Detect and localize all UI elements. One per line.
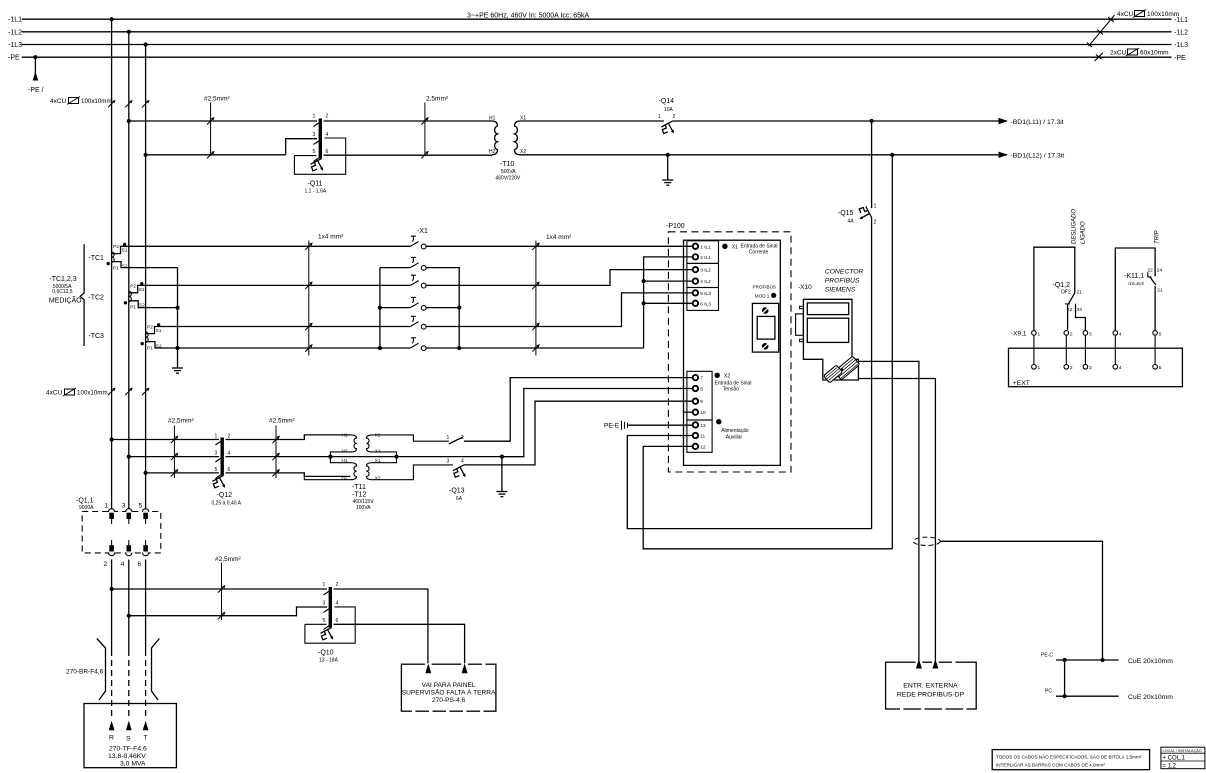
screen drain wire bbox=[940, 541, 1102, 660]
wire to ground bbox=[667, 155, 669, 180]
svg-text:-Q1,2: -Q1,2 bbox=[1053, 282, 1071, 289]
cable ticks middle bbox=[108, 388, 115, 395]
svg-text:3~+PE 60Hz, 460V In: 5000A Ic: 3~+PE 60Hz, 460V In: 5000A Icc: 65kA bbox=[467, 13, 590, 20]
breaker Q11 bbox=[294, 114, 345, 195]
measure line W2 2,5mm2 bbox=[424, 103, 426, 157]
connector X10 plug hatched bbox=[834, 356, 859, 380]
breaker Q1,1 dashed box bbox=[82, 512, 161, 553]
svg-text:-P100: -P100 bbox=[666, 223, 685, 230]
svg-text:P1: P1 bbox=[113, 265, 119, 271]
svg-text:4: 4 bbox=[121, 561, 125, 568]
box VAI PARA PAINEL bbox=[401, 664, 496, 711]
svg-text:100x10mm: 100x10mm bbox=[1147, 11, 1179, 18]
svg-text:3: 3 bbox=[323, 600, 326, 606]
svg-text:S2: S2 bbox=[122, 264, 128, 270]
measure line W #2,5mm2 bbox=[210, 103, 212, 157]
vertical bus drop A bbox=[111, 19, 113, 510]
svg-text:P1: P1 bbox=[147, 345, 153, 351]
svg-text:11: 11 bbox=[700, 434, 705, 440]
svg-text:2xCU: 2xCU bbox=[1110, 50, 1127, 57]
junction W2 on C bbox=[144, 153, 148, 157]
svg-text:22: 22 bbox=[1148, 268, 1154, 274]
svg-text:X2: X2 bbox=[375, 476, 381, 481]
terminal 10 stub bbox=[684, 411, 693, 413]
svg-text:-1L2: -1L2 bbox=[8, 29, 22, 36]
svg-text:13 - 18A: 13 - 18A bbox=[319, 658, 339, 664]
svg-text:12: 12 bbox=[700, 444, 706, 450]
svg-text:1: 1 bbox=[105, 503, 109, 510]
svg-text:4: 4 bbox=[461, 458, 464, 464]
svg-text:-X1: -X1 bbox=[417, 228, 428, 235]
svg-text:0,6C12,5: 0,6C12,5 bbox=[52, 289, 73, 295]
svg-text:460V/220V: 460V/220V bbox=[496, 176, 521, 182]
wire W1 segments bbox=[129, 121, 1007, 155]
svg-text:7: 7 bbox=[700, 376, 703, 382]
terminals 1-6 bbox=[693, 244, 698, 306]
voltage row V3 bbox=[146, 473, 351, 477]
secondary rows bbox=[128, 246, 693, 367]
svg-text:5: 5 bbox=[139, 503, 143, 510]
svg-text:13: 13 bbox=[700, 423, 706, 429]
svg-text:X1: X1 bbox=[732, 245, 738, 251]
svg-text:Corrente: Corrente bbox=[749, 250, 769, 256]
svg-text:S1: S1 bbox=[122, 248, 128, 254]
svg-text:10: 10 bbox=[700, 410, 706, 416]
breaker Q13 bbox=[453, 465, 466, 477]
svg-text:SUPERVISÃO FALTA À TERRA: SUPERVISÃO FALTA À TERRA bbox=[402, 687, 496, 696]
measure line M2 bbox=[535, 241, 537, 356]
voltage row V2 bbox=[129, 456, 331, 458]
junction Q10 feed B bbox=[127, 614, 131, 618]
svg-text:-1L1: -1L1 bbox=[8, 17, 22, 24]
svg-text:PROFIBUS: PROFIBUS bbox=[825, 278, 860, 285]
svg-text:ENTR. EXTERNA: ENTR. EXTERNA bbox=[903, 683, 958, 690]
svg-text:100VA: 100VA bbox=[356, 505, 371, 511]
svg-text:3: 3 bbox=[1089, 331, 1092, 337]
breaker Q12 bbox=[220, 438, 223, 476]
row R5 bbox=[162, 326, 410, 328]
svg-text:6 IL3: 6 IL3 bbox=[700, 301, 711, 307]
transformer T11 bbox=[304, 435, 453, 480]
svg-text:-TC1,2,3: -TC1,2,3 bbox=[49, 276, 76, 283]
row R3 bbox=[145, 284, 410, 286]
vertical bus drop B bbox=[128, 32, 130, 510]
Q1,1 pole A bbox=[108, 509, 114, 556]
terminal 12 wire bbox=[643, 446, 892, 548]
svg-text:1: 1 bbox=[447, 435, 450, 441]
phase arrows R S T bbox=[109, 721, 115, 731]
svg-text:PE-C: PE-C bbox=[1041, 653, 1053, 659]
svg-text:CuE 20x10mm: CuE 20x10mm bbox=[1128, 694, 1173, 701]
wire W2 segments bbox=[146, 154, 286, 156]
terminal 9 wire bbox=[464, 401, 693, 465]
junction W1 on B bbox=[127, 119, 131, 123]
svg-text:/16,4c5: /16,4c5 bbox=[1127, 281, 1144, 287]
CT TC2 bbox=[129, 285, 147, 307]
svg-text:-BD1(L12) / 17.3it: -BD1(L12) / 17.3it bbox=[1011, 153, 1065, 160]
Q1,1 pole C bbox=[142, 509, 148, 556]
svg-text:2: 2 bbox=[1070, 331, 1073, 337]
svg-text:#2,5mm²: #2,5mm² bbox=[168, 418, 194, 425]
svg-text:H2: H2 bbox=[489, 149, 496, 155]
short vertical right bbox=[426, 268, 459, 348]
svg-text:10A: 10A bbox=[664, 107, 674, 113]
transformer T10 bbox=[492, 121, 520, 155]
wire Q10 row1 bbox=[112, 589, 428, 664]
svg-text:-T11: -T11 bbox=[352, 484, 366, 491]
junction Q10 feed A bbox=[110, 587, 114, 591]
svg-text:PE-E: PE-E bbox=[604, 423, 620, 430]
svg-text:2 IL1: 2 IL1 bbox=[700, 255, 711, 261]
svg-text:3 IL2: 3 IL2 bbox=[700, 268, 711, 274]
svg-text:T: T bbox=[144, 735, 148, 742]
bus 1L1 bbox=[22, 18, 1172, 20]
CT TC1 bbox=[112, 246, 130, 267]
aux ref dot bbox=[716, 419, 721, 424]
svg-text:4xCU: 4xCU bbox=[50, 98, 67, 105]
svg-text:-Q14: -Q14 bbox=[659, 98, 675, 105]
svg-text:1: 1 bbox=[658, 114, 661, 120]
svg-text:INTERLIGAR AS BARRAS COM CABOS: INTERLIGAR AS BARRAS COM CABOS DE 4,0mm² bbox=[996, 762, 1105, 767]
svg-text:VAI PARA PAINEL: VAI PARA PAINEL bbox=[422, 682, 476, 689]
svg-text:2: 2 bbox=[673, 114, 676, 120]
svg-text:3: 3 bbox=[447, 458, 450, 464]
svg-text:1: 1 bbox=[874, 204, 877, 210]
connector X10 body bbox=[803, 299, 858, 380]
svg-text:21: 21 bbox=[1077, 290, 1083, 296]
terminal X1-6 bbox=[410, 338, 426, 351]
svg-text:-BD1(L11) / 17.3it: -BD1(L11) / 17.3it bbox=[1011, 119, 1064, 126]
svg-text:6: 6 bbox=[336, 618, 339, 624]
svg-text:CONECTOR: CONECTOR bbox=[825, 269, 864, 276]
svg-text:P1: P1 bbox=[130, 305, 136, 311]
PE tap wire bbox=[34, 57, 36, 80]
row R3 after switch bbox=[426, 270, 692, 286]
svg-text:4: 4 bbox=[228, 451, 231, 457]
svg-text:Auxiliar: Auxiliar bbox=[726, 435, 743, 441]
svg-text:X2: X2 bbox=[375, 449, 381, 454]
terminal X1-4 bbox=[410, 297, 426, 310]
svg-text:5: 5 bbox=[323, 618, 326, 624]
PE feeder slash bbox=[1095, 53, 1103, 61]
svg-text:X2: X2 bbox=[520, 149, 526, 155]
svg-text:-PE: -PE bbox=[8, 55, 20, 62]
svg-text:6: 6 bbox=[138, 561, 142, 568]
wire Q10 row3 out bbox=[334, 624, 465, 663]
svg-text:Alimentação: Alimentação bbox=[721, 428, 749, 434]
aux wire 2 vertical bbox=[891, 155, 893, 549]
svg-text:3: 3 bbox=[1089, 365, 1092, 371]
svg-text:TODOS OS CABOS NÃO ESPECIFICAD: TODOS OS CABOS NÃO ESPECIFICADOS, SÃO DE… bbox=[996, 753, 1142, 759]
svg-text:CuE 20x10mm: CuE 20x10mm bbox=[1128, 658, 1173, 665]
terminal X1-2 bbox=[410, 257, 426, 270]
svg-text:S1: S1 bbox=[139, 287, 145, 293]
svg-text:5 IL3: 5 IL3 bbox=[700, 291, 711, 297]
T11 junctions bbox=[328, 455, 332, 459]
svg-text:Entrada de Sinal: Entrada de Sinal bbox=[715, 380, 752, 386]
svg-text:-K11,1: -K11,1 bbox=[1124, 273, 1144, 280]
svg-text:P2: P2 bbox=[147, 324, 153, 330]
vertical bus drop C bbox=[145, 45, 147, 510]
svg-text:4xCU: 4xCU bbox=[46, 390, 63, 397]
svg-text:+ COL,1: + COL,1 bbox=[1163, 756, 1186, 762]
svg-text:9000A: 9000A bbox=[79, 505, 94, 511]
svg-text:-T10: -T10 bbox=[500, 161, 515, 168]
terminals 7-12 bbox=[693, 375, 698, 449]
svg-text:H2: H2 bbox=[342, 476, 348, 481]
svg-text:LIGADO: LIGADO bbox=[1081, 221, 1087, 244]
terminal X1-5 bbox=[410, 316, 426, 329]
breaker Q15 bbox=[871, 121, 873, 208]
ground vertical bbox=[177, 268, 179, 368]
svg-text:5: 5 bbox=[313, 149, 316, 155]
svg-text:4: 4 bbox=[1119, 365, 1122, 371]
svg-text:2: 2 bbox=[874, 220, 877, 226]
measure M5 bbox=[221, 563, 223, 621]
svg-text:270-BR-F4,6: 270-BR-F4,6 bbox=[66, 669, 104, 676]
svg-text:REDE PROFIBUS-DP: REDE PROFIBUS-DP bbox=[897, 692, 965, 699]
svg-text:1 IL1: 1 IL1 bbox=[700, 244, 711, 250]
svg-text:-X10: -X10 bbox=[798, 284, 812, 291]
svg-text:DESLIGADO: DESLIGADO bbox=[1072, 209, 1078, 244]
svg-text:2: 2 bbox=[461, 435, 464, 441]
wire U2 bbox=[1115, 248, 1155, 330]
svg-text:13,8-0,46KV: 13,8-0,46KV bbox=[108, 753, 146, 760]
svg-text:MOD 1: MOD 1 bbox=[755, 294, 770, 299]
svg-text:S: S bbox=[126, 736, 131, 743]
lower bus A bbox=[111, 560, 113, 651]
svg-text:#2,5mm²: #2,5mm² bbox=[204, 96, 230, 103]
svg-text:3: 3 bbox=[215, 451, 218, 457]
svg-text:21: 21 bbox=[1157, 288, 1163, 294]
svg-text:2: 2 bbox=[336, 582, 339, 588]
svg-text:2: 2 bbox=[326, 114, 329, 120]
svg-text:1x4 mm²: 1x4 mm² bbox=[318, 234, 344, 241]
svg-text:P2: P2 bbox=[130, 283, 136, 289]
measure M3 bbox=[173, 426, 175, 479]
row R2 left bbox=[130, 267, 178, 269]
svg-text:2,5mm²: 2,5mm² bbox=[426, 96, 449, 103]
svg-text:8: 8 bbox=[700, 387, 703, 393]
measure line M1 bbox=[308, 241, 310, 356]
svg-text:Tensão: Tensão bbox=[723, 387, 739, 393]
profibus wire A bbox=[858, 361, 919, 662]
svg-text:3: 3 bbox=[122, 503, 126, 510]
svg-text:-1L2: -1L2 bbox=[1174, 30, 1188, 37]
svg-text:5: 5 bbox=[215, 467, 218, 473]
svg-text:9: 9 bbox=[700, 399, 703, 405]
svg-text:PROFIBUS: PROFIBUS bbox=[753, 285, 776, 290]
junction Q15 tap bbox=[870, 119, 874, 123]
svg-text:+EXT: +EXT bbox=[1013, 380, 1030, 387]
svg-text:-1L3: -1L3 bbox=[8, 42, 22, 49]
box EXT bbox=[1009, 348, 1183, 387]
svg-text:S2: S2 bbox=[139, 303, 145, 309]
svg-text:-Q10: -Q10 bbox=[318, 650, 334, 657]
svg-text:LOCAL / INSTALAÇÃO: LOCAL / INSTALAÇÃO bbox=[1163, 748, 1202, 753]
svg-text:-TC1: -TC1 bbox=[88, 255, 104, 262]
P100 inner box bbox=[684, 240, 781, 465]
X1 ref dot bbox=[722, 244, 727, 249]
svg-text:-PE /: -PE / bbox=[28, 87, 44, 94]
breaker Q14 bbox=[658, 98, 676, 134]
junction A bbox=[110, 17, 114, 21]
junctions V rows bbox=[110, 437, 114, 441]
terminal X1-3 bbox=[410, 275, 426, 288]
svg-text:S2: S2 bbox=[156, 344, 162, 350]
svg-text:270-PS-4,6: 270-PS-4,6 bbox=[432, 697, 466, 704]
lower bus B bbox=[128, 560, 130, 651]
svg-text:-PE: -PE bbox=[1174, 55, 1186, 62]
svg-text:-Q12: -Q12 bbox=[217, 492, 233, 499]
svg-text:6A: 6A bbox=[456, 496, 463, 502]
cable screen bbox=[913, 537, 940, 545]
junction ground tap bbox=[666, 153, 670, 157]
junction dots secondary bbox=[175, 306, 179, 310]
svg-text:OF2: OF2 bbox=[1061, 289, 1071, 295]
voltage row V1 bbox=[112, 435, 351, 440]
profibus wire B bbox=[858, 379, 935, 663]
svg-text:X1: X1 bbox=[375, 433, 381, 438]
svg-text:5: 5 bbox=[1159, 365, 1162, 371]
svg-text:-Q13: -Q13 bbox=[449, 488, 465, 495]
terminal 8 wire bbox=[502, 389, 693, 457]
top-right feeder slash bbox=[1087, 15, 1115, 61]
svg-text:6: 6 bbox=[228, 467, 231, 473]
svg-text:-Q15: -Q15 bbox=[838, 210, 854, 217]
cable ticks top bbox=[108, 100, 115, 107]
svg-text:1: 1 bbox=[1038, 365, 1041, 371]
svg-text:= 1,2: = 1,2 bbox=[1163, 764, 1177, 770]
row R5 after switch bbox=[426, 293, 692, 327]
svg-text:R: R bbox=[109, 735, 114, 742]
svg-text:H2: H2 bbox=[342, 449, 348, 454]
svg-text:-X9,1: -X9,1 bbox=[1011, 331, 1027, 338]
svg-text:#2,5mm²: #2,5mm² bbox=[269, 418, 295, 425]
lower bus C bbox=[145, 560, 147, 651]
svg-text:PC: PC bbox=[1045, 689, 1052, 695]
svg-text:H1: H1 bbox=[489, 116, 496, 122]
wire t13 t11 t12 left stubs handled; terminal 11 wire bbox=[627, 436, 871, 529]
notes box bbox=[992, 750, 1149, 770]
bus PE bbox=[22, 56, 1172, 58]
svg-text:2: 2 bbox=[104, 561, 108, 568]
svg-text:34: 34 bbox=[1077, 307, 1083, 313]
svg-text:1: 1 bbox=[1038, 331, 1041, 337]
svg-text:24: 24 bbox=[1157, 268, 1163, 274]
terminal 7 wire bbox=[464, 378, 693, 442]
svg-text:X1: X1 bbox=[520, 116, 526, 122]
row R6 bbox=[164, 347, 644, 349]
PROFIBUS port bbox=[752, 303, 778, 352]
svg-text:P2: P2 bbox=[113, 244, 119, 250]
svg-text:1,1 - 1,6A: 1,1 - 1,6A bbox=[305, 189, 327, 195]
svg-text:-Q11: -Q11 bbox=[308, 181, 323, 188]
short vertical left bbox=[380, 268, 410, 348]
wire Q10 row2 bbox=[129, 607, 327, 616]
bus 1L2 bbox=[22, 31, 1172, 33]
cable gland brackets bbox=[97, 639, 160, 701]
terminal block X2 boxes bbox=[687, 371, 712, 420]
svg-text:3: 3 bbox=[313, 132, 316, 138]
Q1,1 pole B bbox=[126, 509, 132, 556]
svg-text:-TC3: -TC3 bbox=[88, 333, 104, 340]
svg-text:1: 1 bbox=[323, 582, 326, 588]
row R4 stubs bbox=[147, 307, 459, 309]
CT TC3 bbox=[146, 327, 164, 349]
svg-text:2: 2 bbox=[1070, 365, 1073, 371]
switch sec1 bbox=[449, 437, 463, 444]
svg-text:6: 6 bbox=[326, 149, 329, 155]
svg-text:270-TF-F4,6: 270-TF-F4,6 bbox=[109, 746, 147, 753]
svg-text:#2,5mm²: #2,5mm² bbox=[215, 556, 241, 563]
svg-text:X1: X1 bbox=[375, 458, 381, 463]
arrow BD1 L12 bbox=[999, 152, 1008, 158]
ground bbox=[662, 180, 673, 185]
svg-text:4: 4 bbox=[336, 600, 339, 606]
svg-text:-Q1,1: -Q1,1 bbox=[76, 498, 94, 505]
svg-text:4: 4 bbox=[326, 132, 329, 138]
svg-text:-T12: -T12 bbox=[352, 491, 367, 498]
svg-text:4xCU: 4xCU bbox=[1117, 11, 1134, 18]
CONECTOR PROFIBUS SIEMENS bbox=[825, 269, 864, 294]
svg-text:-TC2: -TC2 bbox=[88, 295, 104, 302]
junction B bbox=[127, 30, 131, 34]
svg-text:2: 2 bbox=[228, 433, 231, 439]
svg-text:100x10mm: 100x10mm bbox=[77, 390, 108, 397]
bus 1L3 bbox=[22, 44, 1172, 46]
svg-text:60x10mm: 60x10mm bbox=[1140, 50, 1169, 57]
svg-text:SIEMENS: SIEMENS bbox=[825, 287, 856, 294]
PE arrow bbox=[33, 72, 39, 81]
ground TC bbox=[172, 368, 183, 373]
svg-text:100x10mm: 100x10mm bbox=[81, 98, 112, 105]
wire PE-C to PC bbox=[1064, 660, 1066, 696]
svg-text:4: 4 bbox=[1119, 331, 1122, 337]
arrow BD1 L11 bbox=[999, 118, 1008, 124]
svg-text:1: 1 bbox=[313, 114, 316, 120]
svg-text:0,25 a 0,40 A: 0,25 a 0,40 A bbox=[212, 501, 242, 507]
TC bracket bbox=[80, 244, 84, 346]
svg-text:500VA: 500VA bbox=[501, 169, 516, 175]
svg-text:3,0 MVA: 3,0 MVA bbox=[120, 761, 146, 768]
relay P100 dashed box bbox=[668, 232, 791, 472]
box ENTR EXTERNA bbox=[886, 662, 977, 709]
transformer TF box bbox=[84, 704, 176, 768]
breaker Q10 bbox=[329, 587, 332, 628]
measure M4 bbox=[275, 426, 277, 479]
svg-text:5: 5 bbox=[1159, 331, 1162, 337]
wire U1 bbox=[1034, 247, 1075, 330]
svg-text:-1L3: -1L3 bbox=[1174, 42, 1188, 49]
title block bbox=[1161, 747, 1205, 769]
svg-text:4A: 4A bbox=[848, 219, 855, 225]
svg-text:X2: X2 bbox=[724, 374, 730, 380]
svg-text:S1: S1 bbox=[156, 328, 162, 334]
PE tap junction bbox=[33, 55, 37, 59]
terminal block X1 boxes bbox=[687, 241, 719, 311]
X2 ref dot bbox=[715, 373, 720, 378]
svg-text:H1: H1 bbox=[342, 458, 348, 463]
terminal X1-1 bbox=[410, 236, 426, 249]
middle voltage row out bbox=[330, 456, 523, 458]
junction aux tap bbox=[890, 153, 894, 157]
svg-text:H1: H1 bbox=[342, 433, 348, 438]
common riser to terminals 2 4 6 bbox=[644, 257, 693, 348]
svg-text:1x4 mm²: 1x4 mm² bbox=[546, 234, 572, 241]
ground for voltage bbox=[501, 457, 503, 491]
svg-text:1: 1 bbox=[215, 433, 218, 439]
